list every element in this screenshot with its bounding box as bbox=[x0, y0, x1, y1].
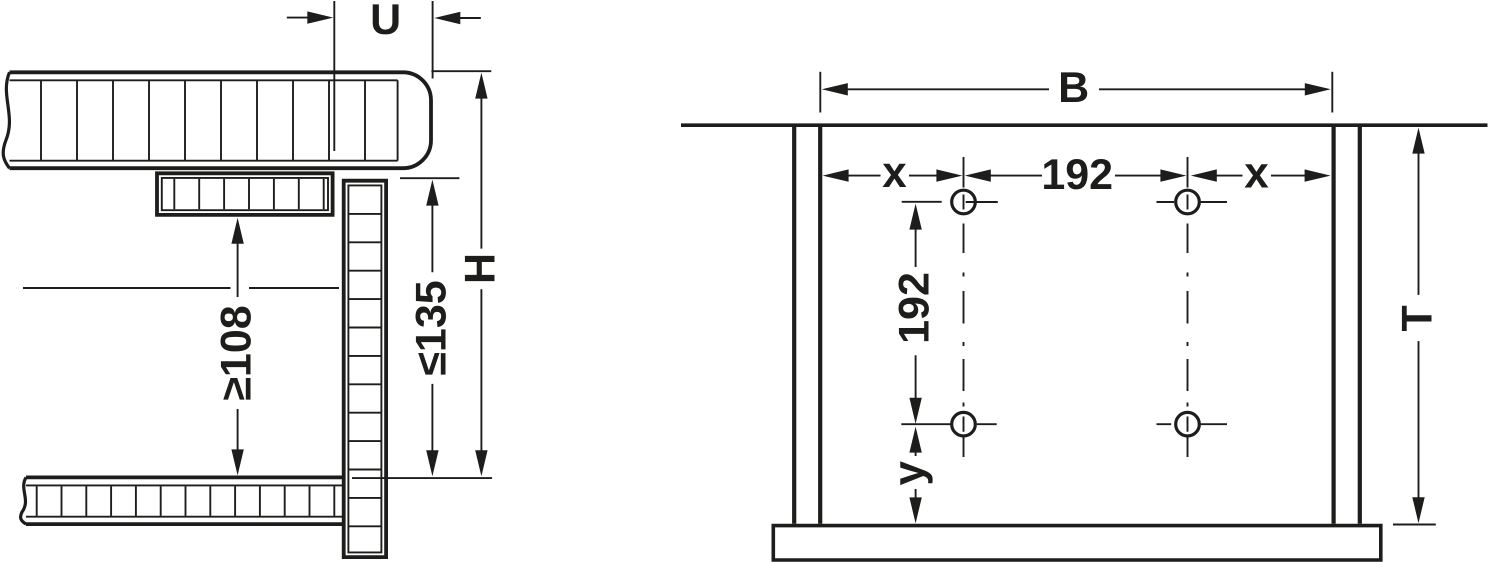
dimension 192 horizontal right shaft bbox=[1115, 175, 1162, 177]
dimension H top extension line bbox=[431, 70, 491, 72]
dimension B right arrow bbox=[1305, 83, 1331, 95]
svg-text:y: y bbox=[885, 461, 934, 486]
worktop core hatch lines bbox=[41, 81, 365, 160]
hole centerline left column (dash-dot) bbox=[963, 157, 965, 457]
svg-text:x: x bbox=[882, 148, 907, 197]
dimension T lower shaft bbox=[1418, 341, 1420, 512]
dimension B left extension line bbox=[819, 72, 821, 113]
svg-text:x: x bbox=[1244, 149, 1269, 198]
dimension B left arrow bbox=[822, 83, 848, 95]
dimension x left shaft bbox=[847, 175, 881, 177]
dimension H bottom extension line bbox=[352, 477, 492, 479]
worktop underside line (front view) bbox=[681, 123, 1488, 127]
dimension >=108 lower shaft bbox=[237, 409, 239, 465]
dimension U right extension line bbox=[432, 1, 434, 79]
dimension y lower shaft bbox=[915, 489, 917, 512]
dimension H bottom arrow bbox=[475, 450, 487, 476]
hole top-left circle bbox=[952, 190, 976, 214]
dimension 192 vertical lower shaft bbox=[915, 355, 917, 412]
hole bottom-right circle bbox=[1176, 412, 1200, 436]
slide reference line bbox=[23, 287, 339, 289]
hole centerline right column (dash-dot) bbox=[1187, 157, 1189, 457]
drawer front panel inner face lines bbox=[348, 185, 381, 552]
dimension x right arrow bbox=[936, 169, 962, 181]
dimension x right shaft bbox=[909, 175, 938, 177]
dimension 192 vertical bottom arrow bbox=[909, 398, 921, 424]
dimension >=108 lower arrow bbox=[231, 449, 243, 475]
dimension 192 vertical upper shaft bbox=[915, 216, 917, 267]
svg-text:B: B bbox=[1058, 64, 1089, 112]
bottom panel hatch lines bbox=[37, 486, 335, 516]
dimension <=135 upper shaft bbox=[431, 192, 433, 272]
dimension y bottom arrow bbox=[909, 497, 921, 523]
worktop panel outline (left view) bbox=[10, 72, 432, 168]
dimension B right extension line bbox=[1331, 72, 1333, 113]
svg-text:H: H bbox=[456, 253, 504, 284]
dimension H lower shaft bbox=[480, 289, 482, 465]
dimension x right-side left shaft bbox=[1217, 175, 1243, 177]
dimension >=108 upper shaft bbox=[237, 228, 239, 297]
dimension B left shaft bbox=[846, 88, 1049, 90]
dimension x left arrow bbox=[823, 169, 849, 181]
svg-text:≥108: ≥108 bbox=[213, 305, 261, 400]
dimension 192 horizontal left shaft bbox=[989, 175, 1042, 177]
dimension U left leader line bbox=[287, 17, 310, 19]
left cabinet side panel lines bbox=[794, 127, 820, 524]
svg-text:192: 192 bbox=[891, 272, 939, 344]
dimension y top extension line bbox=[901, 423, 951, 425]
bottom panel outline bbox=[26, 477, 343, 524]
bottom panel inner face lines bbox=[26, 485, 343, 516]
bottom panel break-line left edge bbox=[21, 477, 26, 524]
mounting rail hatch lines bbox=[174, 179, 323, 210]
hole top-right horizontal centerline bbox=[1157, 201, 1228, 203]
dimension U left arrow bbox=[307, 11, 333, 23]
mounting rail outline bbox=[157, 173, 333, 215]
svg-text:T: T bbox=[1394, 305, 1442, 331]
dimension <=135 top extension line bbox=[400, 177, 459, 179]
hole bottom-right horizontal centerline bbox=[1157, 423, 1228, 425]
right cabinet side panel lines bbox=[1334, 127, 1360, 524]
dimension U left extension line bbox=[333, 1, 335, 151]
dimension H upper shaft bbox=[480, 85, 482, 249]
dimension B right shaft bbox=[1099, 88, 1306, 90]
dimension y upper shaft bbox=[915, 440, 917, 456]
hole bottom-left horizontal centerline bbox=[977, 423, 997, 425]
dimension <=135 bottom arrow bbox=[426, 450, 438, 476]
dimension U right arrow bbox=[434, 12, 460, 24]
dimension T bottom extension line bbox=[1393, 524, 1436, 526]
dimension x right-side right shaft bbox=[1271, 175, 1305, 177]
drawer front panel outline bbox=[344, 181, 386, 557]
plinth/bottom panel rectangle bbox=[773, 526, 1381, 560]
dimension <=135 top arrow bbox=[426, 180, 438, 206]
dimension 192 vertical top extension line bbox=[902, 201, 942, 203]
hole top-right circle bbox=[1176, 190, 1200, 214]
dimension 192 horizontal right arrow bbox=[1160, 169, 1186, 181]
dimension T upper shaft bbox=[1418, 140, 1420, 295]
dimension 192 vertical top arrow bbox=[909, 204, 921, 230]
dimension y top arrow bbox=[909, 427, 921, 453]
dimension x right-side right arrow bbox=[1305, 169, 1331, 181]
svg-text:U: U bbox=[370, 0, 401, 44]
svg-text:192: 192 bbox=[1041, 151, 1113, 199]
dimension H top arrow bbox=[475, 73, 487, 99]
drawer front panel hatch lines bbox=[348, 214, 381, 526]
dimension >=108 upper arrow bbox=[231, 218, 243, 244]
dimension 192 horizontal left arrow bbox=[965, 169, 991, 181]
dimension T bottom arrow bbox=[1412, 497, 1424, 523]
mounting rail inner face lines bbox=[162, 178, 328, 210]
dimension x right-side left arrow bbox=[1191, 169, 1217, 181]
dimension T top arrow bbox=[1412, 128, 1424, 154]
hole top-left horizontal centerline bbox=[966, 201, 998, 203]
worktop panel inner face lines bbox=[10, 80, 398, 160]
worktop panel break-line left edge bbox=[3, 72, 9, 168]
dimension <=135 lower shaft bbox=[431, 384, 433, 465]
svg-text:≤135: ≤135 bbox=[407, 280, 455, 375]
dimension U right leader line bbox=[458, 17, 481, 19]
hole bottom-left circle bbox=[952, 412, 976, 436]
